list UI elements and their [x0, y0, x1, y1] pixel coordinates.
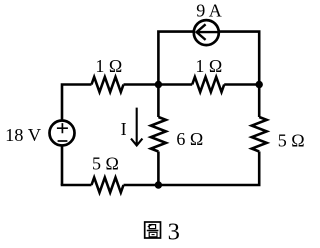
node B junction dot	[256, 81, 263, 88]
wire left vertical through 18V source	[62, 85, 92, 186]
wire from node C left to R5	[124, 184, 159, 187]
current source I1 9A circle	[194, 20, 219, 45]
node C junction dot	[155, 181, 162, 188]
wire from node A to R2	[158, 83, 192, 86]
svg-text:1 Ω: 1 Ω	[95, 56, 122, 76]
svg-text:6 Ω: 6 Ω	[176, 129, 203, 149]
svg-text:18 V: 18 V	[5, 125, 42, 145]
svg-text:9 A: 9 A	[196, 1, 222, 21]
wire from node A up to top loop and across to node B	[158, 32, 259, 85]
resistor R4 5ohm right vertical zigzag	[252, 117, 267, 152]
voltage source V1 plus sign	[57, 123, 68, 133]
node A junction dot	[155, 81, 162, 88]
wire from R3 down to node C	[157, 152, 160, 186]
resistor R2 1ohm top-right zigzag	[192, 77, 224, 92]
wire from R1 to node A	[124, 83, 159, 86]
current source I1 arrow pointing left	[197, 24, 219, 40]
svg-text:5 Ω: 5 Ω	[278, 131, 305, 151]
voltage source V1 minus sign	[58, 140, 68, 142]
svg-text:I: I	[121, 119, 127, 139]
resistor R1 1ohm top-left zigzag	[92, 77, 124, 92]
wire from node B down to R4	[258, 85, 261, 118]
current I arrow beside 6 ohm resistor	[131, 108, 142, 146]
caption figure glyph (CJK tu) drawn as strokes	[145, 222, 161, 238]
svg-text:1 Ω: 1 Ω	[195, 56, 222, 76]
svg-text:3: 3	[168, 219, 180, 246]
svg-text:5 Ω: 5 Ω	[92, 153, 119, 173]
voltage source V1 18V circle	[50, 121, 75, 146]
wire from node A down to R3	[157, 85, 160, 118]
wire from R4 down and left along bottom to node C	[158, 152, 259, 186]
resistor R3 6ohm middle vertical zigzag	[151, 117, 166, 152]
wire from R5 left to bottom-left corner	[61, 184, 92, 187]
wire from R2 to node B	[224, 83, 259, 86]
resistor R5 5ohm bottom zigzag	[92, 178, 124, 193]
